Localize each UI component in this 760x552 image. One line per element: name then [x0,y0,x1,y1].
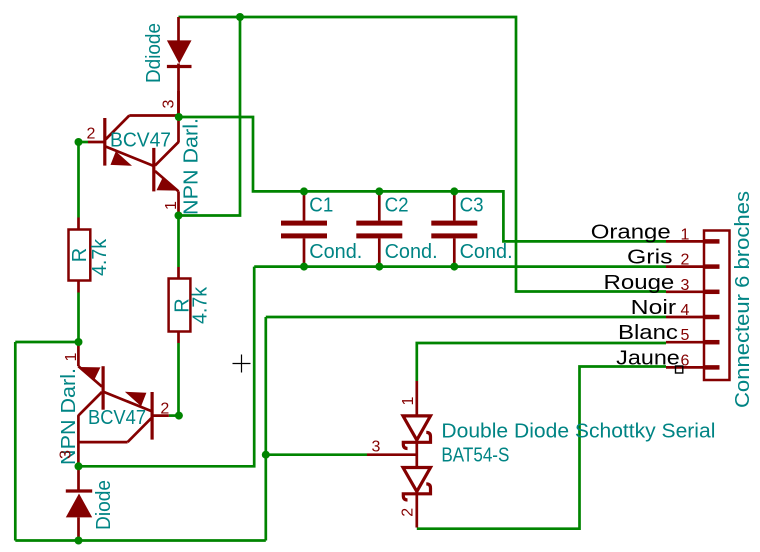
svg-text:Blanc: Blanc [618,322,678,344]
svg-text:3: 3 [371,439,380,456]
wire vertical from Noir wire down to bottom rail [264,317,267,541]
J1 pin 4 line [666,316,704,319]
J1 body [704,231,730,381]
J1 pin 3 stub [704,290,720,295]
D3 bottom diode triangle [403,468,431,492]
junction node C2 bottom [375,263,383,271]
svg-text:Diode: Diode [93,480,115,530]
svg-text:C1: C1 [309,195,333,217]
wire BAT54 pin 3 to left vertical [266,453,367,456]
svg-text:5: 5 [681,327,690,344]
U1 Q1 collector diagonal [106,116,130,140]
wire Blanc pin 5 to BAT54 pin 1 [417,343,666,381]
svg-text:BCV47: BCV47 [88,407,146,429]
junction node C1 top [300,187,308,195]
C3 pin bottom [453,238,456,266]
svg-text:1: 1 [400,396,417,405]
svg-text:3: 3 [161,99,178,108]
svg-text:BCV47: BCV47 [110,130,171,152]
transistor U1 BCV47 Darlington top [88,91,179,216]
wire Q2 base stub [169,414,179,417]
R2 body [169,279,191,332]
U1 Q2 emitter arrow [157,177,178,190]
wire left loop vertical [14,342,17,541]
svg-text:2: 2 [160,401,169,418]
capacitor C2 [356,191,402,266]
svg-text:2: 2 [400,508,417,517]
capacitor C3 [431,191,477,266]
svg-text:1: 1 [63,352,80,361]
svg-text:4.7k: 4.7k [89,238,111,276]
wire from Q1 pin3 node to capacitor top rail and Orange pin 1 [179,117,666,241]
wire cap bottom rail down to diode D2 node [79,267,255,467]
U1 Q2 emitter diagonal [155,171,179,191]
C2 pin top [378,191,381,220]
D3 pin 2 line [415,494,418,528]
svg-text:Double Diode Schottky Serial: Double Diode Schottky Serial [441,421,715,443]
D2 pin top [77,466,80,491]
junction node at U2 pin 2 [175,412,183,420]
junction node at BAT54 pin 3 wire [262,451,270,459]
J1 pin 5 line [666,341,704,344]
R2 pin top [177,267,180,279]
R1 body [69,230,91,281]
C2 pin bottom [378,238,381,266]
D3 top schottky bar [403,432,430,448]
junction node at D2 bottom [75,537,83,545]
transistor U2 BCV47 Darlington bottom (rotated copy) [78,342,169,467]
D3 pin 3 line [367,453,417,456]
svg-text:NPN Darl.: NPN Darl. [181,118,203,215]
junction node C3 bottom [450,263,458,271]
C3 bottom plate [431,233,477,238]
cursor crosshair [233,355,251,373]
svg-text:4.7k: 4.7k [190,286,212,324]
svg-text:2: 2 [681,252,690,269]
wire bottom rail [15,539,265,542]
svg-text:4: 4 [681,302,690,319]
D3 top diode triangle [403,416,431,440]
svg-text:1: 1 [681,226,690,243]
J1 pin 2 line [666,265,704,268]
U1 Q2 base bar [152,148,155,192]
svg-text:Orange: Orange [591,221,671,243]
connector J1 Connecteur 6 broches [666,231,730,381]
wire capacitor bottom rail to Gris pin 2 [254,265,666,268]
J1 pin 3 line [666,290,704,293]
junction node at U2 pin 1 [75,338,83,346]
svg-text:2: 2 [87,126,96,143]
J1 pin 1 line [666,240,704,243]
U1 Q1 base bar [103,118,106,166]
junction node at D2 top [75,462,83,470]
wire top rail from Ddiode top to Rouge pin 3 [179,17,667,292]
J1 pin 5 stub [704,340,720,345]
U1 collector rail [129,114,178,117]
D3 bottom schottky bar [403,484,430,500]
U1 Q2 collector diagonal [155,142,179,166]
junction node C3 top [450,187,458,195]
diode D2 Diode bottom left [66,466,92,540]
C3 pin top [453,191,456,220]
svg-text:6: 6 [681,352,690,369]
C1 top plate [281,221,327,226]
svg-text:Noir: Noir [631,297,677,319]
D3 middle link [415,440,418,468]
unconnected square marker at Jaune wire end [676,366,683,373]
U1 pin 1 line [177,191,180,215]
junction node at U1 pin 3 [175,113,183,121]
svg-text:Jaune: Jaune [616,347,680,369]
svg-text:Ddiode: Ddiode [143,23,165,83]
diode D3 BAT54-S double schottky [367,381,431,528]
junction node A top [236,13,244,21]
C1 bottom plate [281,233,327,238]
J1 pin 4 stub [704,315,720,320]
D2 pin bottom [77,517,80,540]
U1 pin 2 base line [88,141,105,144]
diode D1 Ddiode cathode bar [167,65,192,68]
U1 Q1 emitter diagonal [106,147,154,167]
wire Q1 base stub [79,141,89,144]
svg-text:BAT54-S: BAT54-S [441,445,509,467]
wire BAT54 pin 2 to Jaune pin 6 [417,367,666,529]
svg-text:C3: C3 [460,195,484,217]
C3 top plate [431,221,477,226]
svg-text:3: 3 [58,450,75,459]
diode D1 Ddiode body [167,40,192,63]
J1 pin 6 line [666,366,704,369]
U1 Q1 emitter arrow [111,151,133,166]
C2 bottom plate [356,233,402,238]
diode D1 Ddiode pin top [177,17,180,41]
svg-text:Cond.: Cond. [385,241,438,263]
svg-text:Gris: Gris [627,247,673,269]
svg-text:1: 1 [163,201,180,210]
D3 pin 1 line [415,381,418,416]
junction node C1 bottom [300,263,308,271]
C1 pin top [303,191,306,220]
capacitor C1 [281,191,327,266]
wire Q1 pin1 down to R2 [177,216,180,268]
J1 pin 1 stub [704,239,720,244]
wire vertical from node A down to Darlington Q1 pin 1 [179,17,241,216]
junction node at U1 pin 2 [75,138,83,146]
U1 pin 3 line [177,91,180,143]
wire Noir pin 4 [266,316,666,319]
wire Q1 base down to R1 [77,142,80,218]
D2 body [66,494,92,518]
svg-text:Cond.: Cond. [460,241,513,263]
J1 pin 6 stub [704,365,720,370]
R1 pin top [77,218,80,230]
J1 pin 2 stub [704,264,720,269]
svg-text:C2: C2 [385,195,409,217]
R2 pin bottom [177,332,180,344]
C2 top plate [356,221,402,226]
D2 cathode bar [66,489,92,492]
junction node C2 top [375,187,383,195]
svg-text:R: R [69,248,91,262]
wire left loop to Q2 pin 1 [15,341,78,344]
wire R2 bottom to Q2 base [177,343,180,416]
resistor R1 [69,218,91,293]
svg-text:Cond.: Cond. [309,241,362,263]
junction node at U1 pin 1 [175,212,183,220]
resistor R2 [169,267,191,343]
svg-text:Rouge: Rouge [604,272,675,294]
wire R1 bottom to Q2 node [77,293,80,343]
C1 pin bottom [303,238,306,266]
svg-text:3: 3 [681,277,690,294]
R1 pin bottom [77,281,80,293]
diode D1 Ddiode pin bottom [177,64,180,118]
svg-text:Connecteur 6 broches: Connecteur 6 broches [731,191,754,408]
